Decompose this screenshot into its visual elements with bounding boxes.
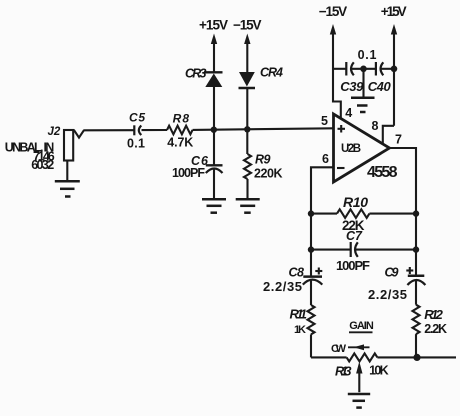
- svg-text:R10: R10: [343, 194, 368, 210]
- svg-text:6032: 6032: [31, 158, 54, 172]
- svg-text:GAIN: GAIN: [349, 320, 374, 332]
- svg-text:C39: C39: [340, 79, 364, 94]
- svg-text:2.2/35: 2.2/35: [368, 287, 407, 302]
- svg-text:CW: CW: [331, 343, 347, 355]
- svg-text:4558: 4558: [367, 164, 398, 181]
- svg-text:J2: J2: [48, 126, 61, 138]
- svg-text:10K: 10K: [369, 363, 389, 377]
- svg-text:−15V: −15V: [233, 17, 262, 32]
- svg-text:C40: C40: [368, 79, 392, 94]
- svg-text:100PF: 100PF: [172, 166, 205, 180]
- svg-text:U2B: U2B: [341, 143, 361, 155]
- svg-text:1K: 1K: [294, 324, 306, 336]
- svg-text:2.2K: 2.2K: [424, 322, 447, 336]
- svg-text:8: 8: [372, 119, 379, 133]
- svg-text:4: 4: [345, 106, 352, 120]
- svg-text:5: 5: [321, 114, 328, 128]
- svg-text:+15V: +15V: [381, 4, 407, 19]
- svg-text:6: 6: [322, 152, 329, 166]
- svg-text:0.1: 0.1: [127, 136, 145, 150]
- svg-text:CR4: CR4: [260, 66, 283, 80]
- svg-text:C5: C5: [129, 110, 145, 124]
- svg-text:2.2/35: 2.2/35: [263, 279, 302, 294]
- svg-text:R13: R13: [335, 363, 352, 378]
- svg-text:C8: C8: [289, 266, 305, 280]
- svg-text:R9: R9: [255, 153, 271, 167]
- svg-text:C9: C9: [385, 266, 399, 280]
- svg-text:100PF: 100PF: [336, 258, 370, 273]
- svg-text:+15V: +15V: [199, 17, 228, 32]
- svg-text:4.7K: 4.7K: [167, 135, 193, 149]
- svg-text:CR3: CR3: [185, 67, 207, 81]
- svg-text:R11: R11: [290, 307, 308, 322]
- svg-text:7: 7: [395, 133, 402, 147]
- svg-text:R12: R12: [424, 307, 443, 322]
- svg-text:0.1: 0.1: [358, 48, 377, 62]
- svg-text:−15V: −15V: [319, 4, 348, 19]
- svg-text:220K: 220K: [254, 166, 283, 180]
- svg-text:C7: C7: [346, 229, 363, 243]
- svg-text:R8: R8: [173, 111, 190, 125]
